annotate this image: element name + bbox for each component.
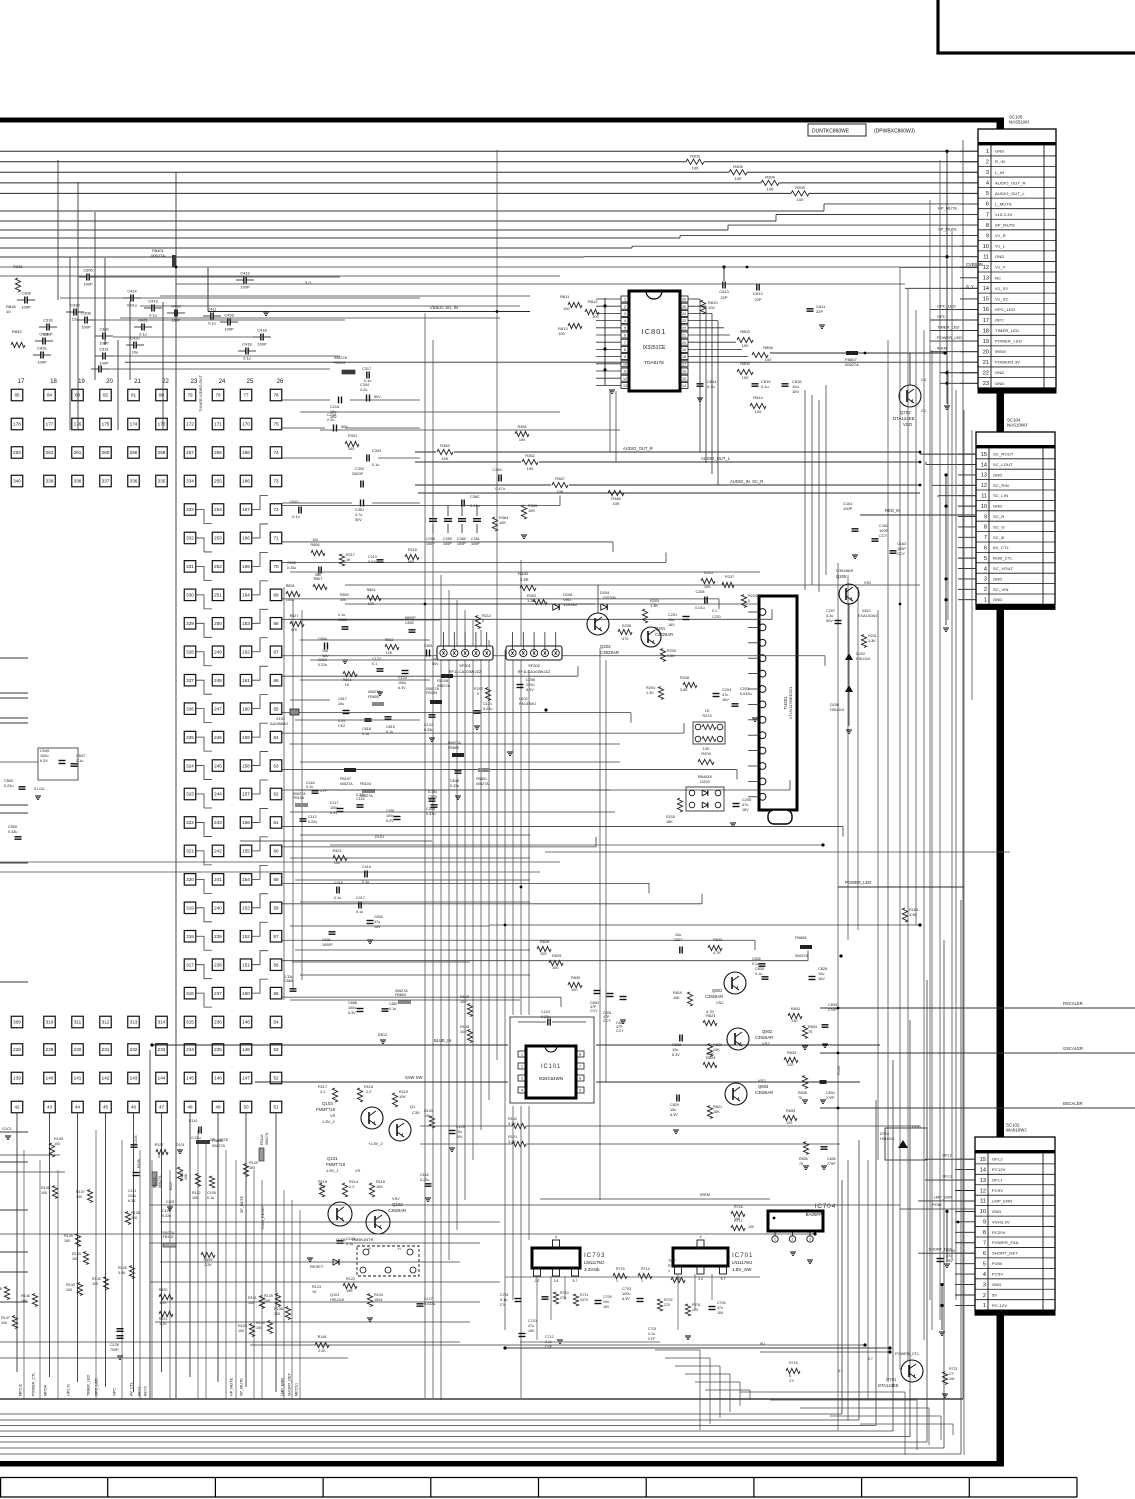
svg-text:R806: R806 <box>763 345 773 350</box>
svg-text:16V: 16V <box>946 1259 953 1263</box>
svg-text:C420: C420 <box>130 336 140 341</box>
svg-text:0.22u: 0.22u <box>356 793 365 797</box>
svg-text:100P: 100P <box>426 542 435 546</box>
svg-text:R367: R367 <box>555 476 565 481</box>
svg-text:16V: 16V <box>603 1305 610 1309</box>
svg-text:10K: 10K <box>441 456 448 461</box>
svg-text:100P: 100P <box>224 327 233 332</box>
svg-text:AAG88WJ: AAG88WJ <box>270 721 288 726</box>
svg-text:4: 4 <box>555 1235 557 1239</box>
svg-text:C110: C110 <box>189 1119 198 1123</box>
svg-text:75: 75 <box>798 1096 802 1100</box>
svg-text:0: 0 <box>482 619 484 623</box>
svg-text:FB102: FB102 <box>163 1235 174 1239</box>
svg-text:0.1u: 0.1u <box>207 1196 214 1200</box>
svg-text:21: 21 <box>682 334 686 338</box>
svg-text:00627A: 00627A <box>212 1144 226 1148</box>
svg-text:R144: R144 <box>66 1283 75 1287</box>
svg-text:260: 260 <box>102 450 110 455</box>
svg-text:D701: D701 <box>912 1125 921 1129</box>
svg-text:R710: R710 <box>560 1291 569 1295</box>
svg-text:D704: D704 <box>880 1132 889 1136</box>
svg-text:V1_L: V1_L <box>995 244 1006 249</box>
svg-text:69: 69 <box>273 593 279 598</box>
svg-text:C101: C101 <box>541 1010 550 1014</box>
svg-text:L_IN: L_IN <box>995 170 1004 175</box>
svg-text:44: 44 <box>75 1105 81 1110</box>
svg-text:V1_SY: V1_SY <box>995 286 1009 291</box>
svg-text:15: 15 <box>980 1157 986 1163</box>
svg-text:CCY: CCY <box>616 1029 624 1033</box>
svg-text:336: 336 <box>130 479 138 484</box>
svg-text:100: 100 <box>748 1225 754 1229</box>
svg-text:19: 19 <box>78 379 85 385</box>
svg-text:58: 58 <box>273 906 279 911</box>
svg-text:1.3K: 1.3K <box>667 654 675 658</box>
svg-text:1K: 1K <box>346 558 351 562</box>
svg-text:2.2K: 2.2K <box>520 577 529 582</box>
svg-text:C415: C415 <box>362 865 371 869</box>
svg-text:TIMER_LED: TIMER_LED <box>87 1374 91 1396</box>
svg-text:75: 75 <box>799 1162 803 1166</box>
svg-text:10K: 10K <box>673 996 680 1000</box>
svg-text:SP_MUTE: SP_MUTE <box>240 1195 244 1213</box>
svg-text:VTUV11YBED321: VTUV11YBED321 <box>788 686 793 719</box>
svg-text:C360: C360 <box>457 537 466 541</box>
svg-text:2: 2 <box>699 1269 701 1273</box>
svg-text:0: 0 <box>748 599 750 603</box>
svg-text:16: 16 <box>983 307 989 313</box>
svg-text:146: 146 <box>214 1076 222 1081</box>
svg-text:171: 171 <box>214 422 222 427</box>
svg-text:GND: GND <box>995 381 1005 386</box>
svg-text:100: 100 <box>540 951 547 956</box>
svg-text:309: 309 <box>13 1020 21 1025</box>
svg-text:3.9K: 3.9K <box>680 688 688 692</box>
svg-text:C804: C804 <box>318 637 327 641</box>
svg-text:6.3V: 6.3V <box>672 1053 680 1057</box>
svg-text:C418: C418 <box>242 342 251 347</box>
svg-text:71: 71 <box>273 536 279 541</box>
svg-text:C833: C833 <box>828 1003 837 1007</box>
svg-text:3: 3 <box>624 312 626 316</box>
svg-text:20: 20 <box>106 379 113 385</box>
svg-text:100: 100 <box>563 306 570 311</box>
svg-text:R834: R834 <box>808 1025 817 1029</box>
svg-text:OFL2: OFL2 <box>992 1157 1003 1162</box>
svg-text:R304: R304 <box>765 174 775 179</box>
svg-text:1: 1 <box>641 1279 643 1283</box>
svg-text:R205: R205 <box>667 649 676 653</box>
svg-text:338: 338 <box>74 479 82 484</box>
svg-text:C332: C332 <box>99 327 108 332</box>
svg-text:5: 5 <box>579 1089 581 1093</box>
svg-text:3: 3 <box>521 1077 523 1081</box>
svg-text:3: 3 <box>984 577 987 583</box>
svg-text:10u: 10u <box>818 972 824 976</box>
svg-text:R112: R112 <box>192 1191 201 1195</box>
svg-text:C712: C712 <box>545 1335 554 1339</box>
svg-text:14: 14 <box>980 1167 986 1173</box>
svg-text:6.3V: 6.3V <box>348 1011 356 1015</box>
svg-text:FB204: FB204 <box>334 361 345 365</box>
svg-text:7: 7 <box>984 535 987 541</box>
svg-text:C3928AR: C3928AR <box>755 1035 773 1040</box>
svg-text:46: 46 <box>131 1105 137 1110</box>
svg-text:0.1: 0.1 <box>712 609 717 613</box>
svg-text:HSU119: HSU119 <box>880 1137 894 1141</box>
svg-text:AV_CTL: AV_CTL <box>993 545 1010 550</box>
svg-text:C709: C709 <box>603 1295 612 1299</box>
svg-text:0.1u: 0.1u <box>362 880 369 884</box>
svg-text:258: 258 <box>158 450 166 455</box>
svg-text:SP_MUTE: SP_MUTE <box>938 227 957 232</box>
svg-text:C208: C208 <box>695 590 704 594</box>
svg-text:63: 63 <box>273 763 279 768</box>
svg-text:66: 66 <box>273 678 279 683</box>
svg-text:45: 45 <box>103 1105 109 1110</box>
svg-text:R103: R103 <box>238 1324 247 1328</box>
svg-text:0.1u: 0.1u <box>362 732 369 736</box>
svg-text:SC_VIN: SC_VIN <box>993 587 1009 592</box>
svg-text:M24C64WN: M24C64WN <box>539 1076 563 1081</box>
svg-text:85: 85 <box>14 393 20 398</box>
svg-text:CCY: CCY <box>590 1009 598 1013</box>
svg-text:170: 170 <box>242 422 250 427</box>
svg-text:100: 100 <box>21 1299 27 1303</box>
svg-text:1000P: 1000P <box>322 943 333 947</box>
svg-text:7: 7 <box>579 1065 581 1069</box>
svg-text:6: 6 <box>789 1374 791 1378</box>
svg-text:100: 100 <box>256 1326 262 1330</box>
svg-text:AUDIO_OUT_L: AUDIO_OUT_L <box>701 456 731 461</box>
svg-text:R221: R221 <box>159 1317 168 1321</box>
svg-text:0.1u: 0.1u <box>364 379 371 383</box>
svg-text:C109: C109 <box>207 1191 216 1195</box>
svg-text:250: 250 <box>214 621 222 626</box>
svg-text:R814: R814 <box>753 395 763 400</box>
svg-text:DTA144EE: DTA144EE <box>878 1383 899 1388</box>
svg-text:HSU119: HSU119 <box>330 1298 344 1302</box>
svg-text:100P: 100P <box>240 285 249 290</box>
svg-text:00627A: 00627A <box>158 1175 162 1188</box>
svg-text:C207: C207 <box>826 609 835 613</box>
svg-text:5.7: 5.7 <box>573 1279 578 1283</box>
svg-text:00627A: 00627A <box>265 1132 269 1145</box>
svg-text:59: 59 <box>273 877 279 882</box>
svg-text:00627A: 00627A <box>476 782 489 786</box>
svg-text:2: 2 <box>792 1238 794 1242</box>
svg-text:R305: R305 <box>733 164 743 169</box>
svg-text:C549: C549 <box>40 749 49 753</box>
svg-text:100: 100 <box>742 343 749 348</box>
svg-text:C333: C333 <box>43 318 52 323</box>
svg-text:186: 186 <box>242 450 250 455</box>
svg-text:100: 100 <box>797 197 804 202</box>
svg-text:IREM: IREM <box>995 349 1006 354</box>
svg-text:15K: 15K <box>346 1289 353 1293</box>
svg-text:R711: R711 <box>580 1293 588 1297</box>
svg-text:Q102: Q102 <box>392 1202 403 1207</box>
svg-text:C550: C550 <box>428 795 437 799</box>
svg-text:8: 8 <box>624 348 626 352</box>
svg-text:10K: 10K <box>184 1173 188 1180</box>
svg-text:228: 228 <box>13 1047 21 1052</box>
svg-text:12K: 12K <box>386 651 393 655</box>
svg-text:UPC.N: UPC.N <box>67 1384 71 1396</box>
svg-text:C205: C205 <box>742 798 751 802</box>
svg-text:BSCALER: BSCALER <box>1063 1101 1083 1106</box>
svg-text:8: 8 <box>984 525 987 531</box>
svg-text:0.1u: 0.1u <box>338 613 345 617</box>
svg-text:231: 231 <box>102 1047 110 1052</box>
svg-text:229: 229 <box>46 1047 54 1052</box>
svg-text:100: 100 <box>592 314 599 319</box>
svg-text:55: 55 <box>273 991 279 996</box>
svg-text:AUDIO_OUT_R: AUDIO_OUT_R <box>623 446 653 451</box>
svg-text:60: 60 <box>273 849 279 854</box>
svg-text:22P: 22P <box>720 295 727 300</box>
svg-text:V1_R: V1_R <box>995 233 1006 238</box>
svg-text:10u: 10u <box>670 1108 676 1112</box>
svg-text:(DPWBXC860WJ): (DPWBXC860WJ) <box>874 129 915 135</box>
svg-text:NAS10WJ: NAS10WJ <box>1007 423 1027 428</box>
svg-text:0.1u: 0.1u <box>752 962 759 966</box>
svg-text:C331: C331 <box>99 347 108 352</box>
svg-text:1: 1 <box>984 597 987 603</box>
svg-text:RESET: RESET <box>310 1264 324 1269</box>
svg-text:IC703: IC703 <box>584 1252 605 1259</box>
svg-text:GND: GND <box>993 597 1003 602</box>
svg-text:C218: C218 <box>327 413 336 417</box>
svg-text:C362: C362 <box>470 494 479 499</box>
svg-text:UM5K1NTR: UM5K1NTR <box>352 1237 374 1242</box>
svg-text:0.1u: 0.1u <box>139 332 147 337</box>
svg-text:3: 3 <box>722 1269 724 1273</box>
svg-text:100P: 100P <box>879 528 889 533</box>
svg-text:100: 100 <box>571 987 578 992</box>
svg-text:10K: 10K <box>192 1196 199 1200</box>
svg-text:R701: R701 <box>692 1303 701 1307</box>
svg-text:R106: R106 <box>460 1025 469 1029</box>
svg-text:R811: R811 <box>560 294 570 299</box>
svg-text:220u: 220u <box>128 1194 136 1198</box>
svg-text:D101: D101 <box>375 835 384 839</box>
svg-text:142: 142 <box>102 1076 110 1081</box>
svg-text:0: 0 <box>158 1155 160 1159</box>
svg-text:1.2K: 1.2K <box>527 598 535 603</box>
svg-text:R107: R107 <box>169 1181 173 1190</box>
svg-text:3900P: 3900P <box>352 472 363 476</box>
svg-text:47u: 47u <box>722 693 728 697</box>
svg-text:0.1u: 0.1u <box>389 1007 396 1011</box>
svg-text:C3928AR: C3928AR <box>655 632 673 637</box>
svg-text:147: 147 <box>242 1076 250 1081</box>
svg-text:331: 331 <box>186 564 194 569</box>
svg-text:R143: R143 <box>72 1252 81 1256</box>
svg-text:C124: C124 <box>398 676 407 680</box>
svg-text:C812: C812 <box>753 291 763 296</box>
svg-text:178: 178 <box>13 422 21 427</box>
svg-text:100u: 100u <box>348 1006 356 1010</box>
svg-text:5V: 5V <box>760 1341 765 1346</box>
svg-text:172: 172 <box>186 422 194 427</box>
svg-text:6: 6 <box>579 1077 581 1081</box>
svg-text:CVBS IN: CVBS IN <box>966 262 983 267</box>
svg-text:54: 54 <box>273 1020 279 1025</box>
svg-text:2: 2 <box>521 1065 523 1069</box>
svg-text:145: 145 <box>186 1076 194 1081</box>
svg-text:FB104: FB104 <box>360 782 371 786</box>
svg-text:R838: R838 <box>798 1091 807 1095</box>
svg-text:322: 322 <box>186 820 194 825</box>
svg-text:2: 2 <box>984 587 987 593</box>
svg-text:10u: 10u <box>672 1048 678 1052</box>
svg-text:248: 248 <box>214 678 222 683</box>
svg-text:3.3u: 3.3u <box>826 614 833 618</box>
svg-text:11: 11 <box>981 493 987 499</box>
svg-text:10: 10 <box>6 309 11 314</box>
svg-text:14: 14 <box>682 384 686 388</box>
svg-text:0.1u: 0.1u <box>76 759 83 763</box>
svg-text:R213: R213 <box>702 713 711 718</box>
svg-text:C412: C412 <box>240 271 249 276</box>
svg-text:Q202: Q202 <box>600 644 611 649</box>
svg-text:47: 47 <box>159 1105 165 1110</box>
svg-text:3.3Vstb: 3.3Vstb <box>584 1267 600 1272</box>
svg-text:R146: R146 <box>21 1294 30 1298</box>
svg-text:6.3V: 6.3V <box>330 811 338 815</box>
svg-text:TCON_RESET: TCON_RESET <box>261 1205 265 1230</box>
svg-text:SHORT_DET: SHORT_DET <box>288 1372 292 1396</box>
svg-text:74: 74 <box>273 450 279 455</box>
svg-text:R423: R423 <box>333 849 342 853</box>
svg-text:100: 100 <box>248 1301 254 1305</box>
svg-text:R101: R101 <box>508 1135 517 1139</box>
svg-text:C3928AR: C3928AR <box>755 1090 773 1095</box>
svg-text:POWER_LED: POWER_LED <box>937 335 962 340</box>
svg-text:OFL1: OFL1 <box>992 1178 1003 1183</box>
svg-text:0.33u: 0.33u <box>428 790 437 794</box>
svg-text:L_MUTE: L_MUTE <box>995 201 1012 206</box>
svg-text:4: 4 <box>521 1089 523 1093</box>
svg-text:R718: R718 <box>789 1361 798 1365</box>
svg-text:C710: C710 <box>528 1319 537 1323</box>
svg-text:100: 100 <box>72 1257 78 1261</box>
svg-text:FB107: FB107 <box>340 777 351 781</box>
svg-text:24: 24 <box>682 312 686 316</box>
svg-text:10K: 10K <box>612 501 619 506</box>
svg-text:RSCALER: RSCALER <box>1063 1001 1083 1006</box>
svg-text:R125: R125 <box>118 1266 127 1270</box>
svg-text:6.3V: 6.3V <box>670 1113 678 1117</box>
svg-text:16V: 16V <box>717 1311 724 1315</box>
svg-text:166: 166 <box>242 536 250 541</box>
svg-text:173: 173 <box>158 422 166 427</box>
svg-text:0.33u: 0.33u <box>426 812 436 816</box>
svg-text:0.22u: 0.22u <box>483 707 493 711</box>
svg-text:1SS390: 1SS390 <box>602 595 617 600</box>
svg-text:R127: R127 <box>155 1143 164 1147</box>
svg-text:10K: 10K <box>703 746 710 751</box>
svg-text:VSH3.3V: VSH3.3V <box>992 1219 1010 1224</box>
svg-text:100: 100 <box>66 1288 72 1292</box>
svg-text:GND: GND <box>995 254 1005 259</box>
svg-text:10K: 10K <box>499 520 506 525</box>
svg-text:100: 100 <box>734 1217 740 1221</box>
svg-text:4470: 4470 <box>580 1298 588 1302</box>
svg-text:9: 9 <box>983 1220 986 1226</box>
svg-text:C430: C430 <box>70 303 80 308</box>
svg-text:18V: 18V <box>528 1329 535 1333</box>
svg-text:C303: C303 <box>372 449 381 453</box>
svg-text:C123: C123 <box>372 657 381 661</box>
svg-text:3.4: 3.4 <box>698 1277 703 1281</box>
svg-text:333: 333 <box>186 507 194 512</box>
svg-text:50: 50 <box>243 1105 249 1110</box>
svg-text:312: 312 <box>102 1020 110 1025</box>
svg-text:0.033u: 0.033u <box>740 692 752 696</box>
svg-text:0.1u: 0.1u <box>208 321 216 326</box>
svg-text:C107: C107 <box>162 1209 171 1213</box>
svg-text:R212: R212 <box>482 614 491 618</box>
svg-text:100: 100 <box>76 1195 82 1199</box>
svg-text:21: 21 <box>134 379 141 385</box>
svg-text:C218: C218 <box>330 405 339 409</box>
svg-text:0.22u: 0.22u <box>318 663 327 667</box>
svg-text:161: 161 <box>242 678 250 683</box>
svg-text:13: 13 <box>980 1178 986 1184</box>
svg-text:Q701: Q701 <box>886 1377 897 1382</box>
svg-text:0.22u: 0.22u <box>4 784 14 788</box>
svg-text:0.022u: 0.022u <box>424 1302 435 1306</box>
svg-text:1M: 1M <box>312 538 317 542</box>
svg-text:C828: C828 <box>672 1043 681 1047</box>
svg-text:3: 3 <box>986 170 989 176</box>
svg-text:R207: R207 <box>474 687 483 691</box>
svg-text:C835: C835 <box>752 957 761 961</box>
svg-text:FB805: FB805 <box>368 695 379 699</box>
svg-text:C888: C888 <box>348 1001 357 1005</box>
svg-text:18: 18 <box>682 355 686 359</box>
svg-text:320: 320 <box>186 877 194 882</box>
svg-text:00627A: 00627A <box>340 782 353 786</box>
svg-text:1K: 1K <box>345 683 350 687</box>
svg-text:C431: C431 <box>39 332 48 337</box>
svg-text:2.2u: 2.2u <box>360 388 367 392</box>
svg-text:0.1: 0.1 <box>372 662 377 666</box>
svg-text:1u: 1u <box>432 657 436 661</box>
svg-text:CK2: CK2 <box>338 724 345 728</box>
svg-text:R204: R204 <box>646 686 655 690</box>
svg-text:120: 120 <box>787 1063 793 1067</box>
svg-text:340: 340 <box>13 479 21 484</box>
svg-text:57: 57 <box>273 934 279 939</box>
svg-text:154: 154 <box>242 877 250 882</box>
svg-text:C84A: C84A <box>450 779 460 783</box>
svg-text:D206: D206 <box>830 703 839 707</box>
svg-text:100P: 100P <box>37 360 46 365</box>
svg-text:OPC: OPC <box>995 317 1004 322</box>
svg-text:100: 100 <box>92 1282 98 1286</box>
svg-text:OPC_LED: OPC_LED <box>95 1378 99 1396</box>
svg-text:VSD: VSD <box>903 422 912 427</box>
svg-text:R829: R829 <box>552 953 561 958</box>
svg-text:IC101: IC101 <box>541 1064 561 1070</box>
svg-text:330: 330 <box>186 593 194 598</box>
svg-text:175: 175 <box>102 422 110 427</box>
svg-text:16V: 16V <box>818 977 825 981</box>
